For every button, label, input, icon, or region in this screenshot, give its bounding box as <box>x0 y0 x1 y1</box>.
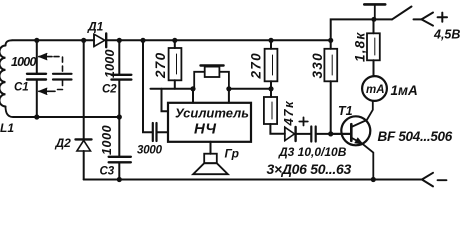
diode Д1 <box>94 34 106 48</box>
wire top rail <box>12 39 331 41</box>
svg-text:330: 330 <box>310 52 325 78</box>
svg-text:1000: 1000 <box>103 49 117 78</box>
wire detector to 3000 cap <box>143 40 152 132</box>
node element left <box>190 86 195 91</box>
svg-text:270: 270 <box>153 52 168 79</box>
svg-text:BF 504...506: BF 504...506 <box>378 129 453 144</box>
capacitor C3 <box>109 117 131 180</box>
connector plug top <box>414 13 434 26</box>
antenna T symbol <box>364 4 385 19</box>
node C2 top <box>117 38 122 43</box>
svg-text:1000: 1000 <box>11 55 36 69</box>
transistor T1 <box>341 101 373 180</box>
capacitor 10,0/10В electrolytic <box>311 127 350 142</box>
wire to 270#2 <box>229 88 271 90</box>
node C1 top <box>34 38 39 43</box>
svg-text:3×Д06 50...63: 3×Д06 50...63 <box>267 161 352 177</box>
wire element to amp box left vertical <box>192 89 194 103</box>
diode D2 (Д2) wire <box>83 40 85 138</box>
wire element to amp box right vertical <box>228 89 230 103</box>
svg-text:Гр: Гр <box>225 147 239 161</box>
resistor R 270 #1 <box>169 40 182 89</box>
node D2 top <box>81 38 86 43</box>
node C3 bottom <box>117 177 122 182</box>
diode Д2 <box>76 139 92 179</box>
C1 arrow top <box>39 53 52 59</box>
capacitor 3000 <box>153 123 168 141</box>
label + (cap polarity) <box>299 117 308 125</box>
node 270#2 top <box>268 38 273 43</box>
node C2/C3/tank junction <box>117 114 122 119</box>
C1 arrow bottom <box>39 88 55 94</box>
node battery rail <box>371 17 376 22</box>
svg-text:47к: 47к <box>281 100 296 127</box>
wire base junction to transistor <box>331 133 351 135</box>
svg-text:Усилитель: Усилитель <box>175 106 249 121</box>
amplifier box U1 Усилитель НЧ <box>168 103 251 142</box>
svg-text:mA: mA <box>366 84 385 96</box>
svg-text:Д3 10,0/10В: Д3 10,0/10В <box>278 145 347 159</box>
svg-text:C1: C1 <box>14 82 29 94</box>
node element right <box>226 86 231 91</box>
input stub wire <box>151 88 194 90</box>
svg-text:C2: C2 <box>102 84 117 96</box>
node 270#1 top <box>172 38 177 43</box>
wire battery top rail <box>331 19 392 40</box>
svg-text:1мА: 1мА <box>391 83 418 98</box>
node emitter-rail <box>371 177 376 182</box>
C1 ganged trimmer section (dashed) <box>53 57 72 90</box>
label + battery <box>438 13 447 22</box>
svg-text:C3: C3 <box>100 166 115 178</box>
svg-text:Д1: Д1 <box>87 20 104 34</box>
svg-text:НЧ: НЧ <box>194 121 216 138</box>
resistor R 270 #2 <box>265 40 278 89</box>
resistor R 330 <box>324 40 337 134</box>
svg-text:Т1: Т1 <box>338 104 353 118</box>
switch S1 blade <box>392 7 412 20</box>
meter mA <box>362 76 387 101</box>
node 270#2 bottom <box>268 86 273 91</box>
svg-text:1,8к: 1,8к <box>353 32 368 62</box>
svg-text:Д2: Д2 <box>55 136 72 150</box>
svg-text:L1: L1 <box>0 121 14 135</box>
label minus battery <box>438 179 447 181</box>
svg-text:270: 270 <box>249 52 264 79</box>
node C1 bottom <box>34 114 39 119</box>
node base junction <box>328 131 333 136</box>
capacitor C1 (variable) <box>27 40 46 117</box>
diode Д3 <box>285 127 311 141</box>
capacitor C2 <box>112 40 132 117</box>
connector plug bottom <box>422 173 433 187</box>
resistor R 1,8к <box>367 19 380 76</box>
node 330 top / battery corner <box>328 38 333 43</box>
parallel element (bar + box) <box>194 66 229 89</box>
wire ground rail <box>84 179 422 181</box>
svg-text:1000: 1000 <box>100 125 114 155</box>
coil L1 <box>0 40 13 117</box>
svg-text:4,5В: 4,5В <box>433 28 460 42</box>
wire tank bottom <box>13 116 120 118</box>
svg-text:3000: 3000 <box>137 145 163 157</box>
input stem wire to amp <box>162 89 169 112</box>
node 3000-wire top <box>140 38 145 43</box>
resistor R 47к <box>264 89 285 134</box>
speaker Гр <box>193 142 228 174</box>
